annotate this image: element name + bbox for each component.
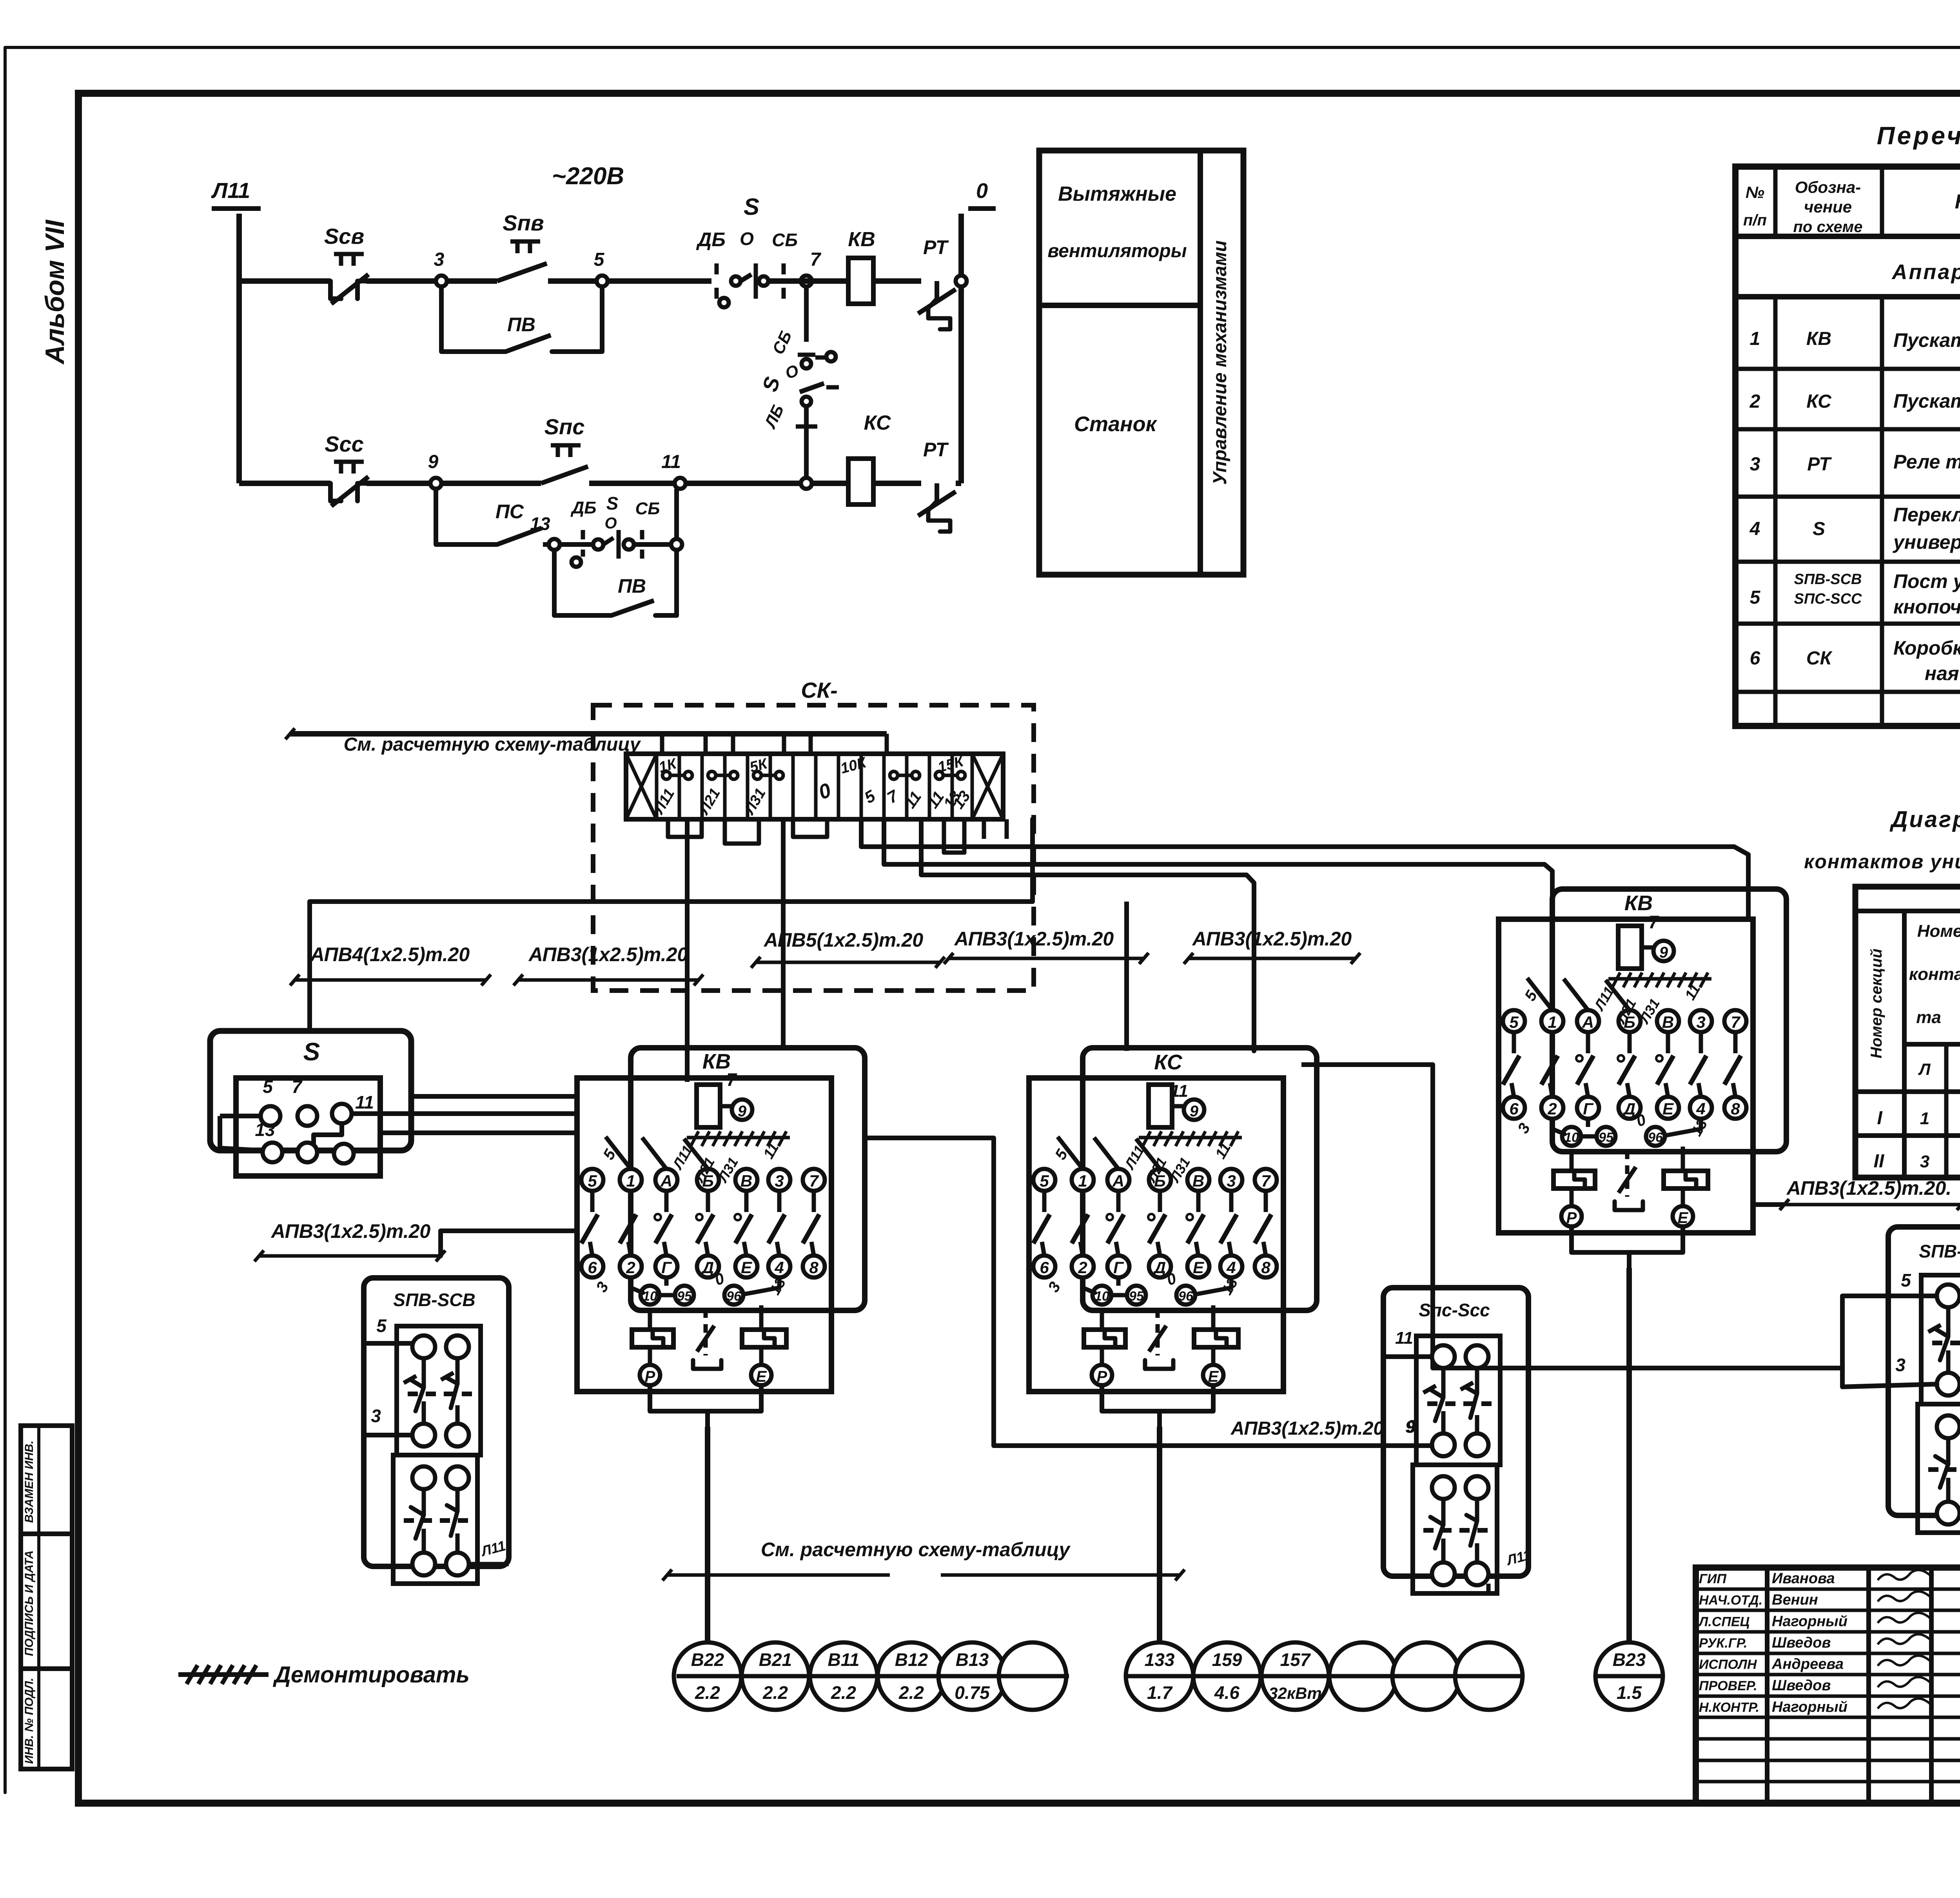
machines control box	[1039, 151, 1243, 575]
svg-text:Нагорный: Нагорный	[1772, 1613, 1847, 1629]
svg-text:РТ: РТ	[1807, 454, 1832, 475]
svg-text:АПВ4(1х2.5)т.20: АПВ4(1х2.5)т.20	[310, 944, 470, 965]
switch S terminal block	[210, 1031, 411, 1150]
svg-text:О: О	[740, 229, 754, 249]
svg-text:В22: В22	[691, 1649, 724, 1670]
svg-text:2.2: 2.2	[831, 1682, 856, 1703]
svg-text:О: О	[604, 515, 617, 532]
button station block SPV-SCV (right)	[1888, 1227, 1960, 1533]
svg-text:Sсв: Sсв	[324, 224, 364, 249]
svg-text:ВЗАМЕН ИНВ.: ВЗАМЕН ИНВ.	[23, 1441, 36, 1523]
legend: to be dismantled	[178, 1672, 269, 1677]
SK top jumper loops	[660, 734, 664, 754]
SK terminal strip	[626, 754, 1003, 819]
svg-text:3: 3	[1920, 1152, 1929, 1171]
svg-text:АПВ3(1х2.5)т.20: АПВ3(1х2.5)т.20	[1230, 1418, 1384, 1439]
svg-text:Диаграмма замыканий: Диаграмма замыканий	[1889, 807, 1960, 832]
wire	[447, 278, 497, 284]
svg-text:Sсс: Sсс	[325, 432, 364, 456]
svg-text:~220В: ~220В	[552, 163, 624, 190]
svg-text:ПВ: ПВ	[507, 314, 535, 336]
wire 0 vertical	[958, 214, 964, 483]
svg-text:0.75: 0.75	[955, 1682, 990, 1703]
svg-text:Л: Л	[1918, 1060, 1931, 1078]
svg-text:Андреева: Андреева	[1771, 1656, 1844, 1673]
svg-text:В13: В13	[956, 1649, 989, 1670]
svg-text:1: 1	[1920, 1109, 1929, 1128]
svg-text:КВ: КВ	[848, 228, 875, 251]
svg-text:6: 6	[1750, 648, 1760, 669]
svg-text:В11: В11	[828, 1649, 860, 1670]
svg-text:Альбом VII: Альбом VII	[40, 219, 70, 365]
svg-text:КС: КС	[1806, 391, 1832, 412]
svg-text:Управление механизмами: Управление механизмами	[1210, 240, 1230, 484]
svg-text:S: S	[744, 194, 759, 220]
svg-text:I: I	[1877, 1108, 1883, 1129]
svg-text:Иванова: Иванова	[1772, 1570, 1835, 1587]
svg-text:SПВ-SСВ: SПВ-SСВ	[1794, 571, 1862, 588]
svg-text:ДБ: ДБ	[570, 498, 597, 517]
junction box SK dashed outline	[593, 705, 1034, 991]
button station block SPV-SCV (left)	[364, 1278, 509, 1584]
svg-text:4.6: 4.6	[1214, 1682, 1240, 1703]
wire	[608, 278, 711, 284]
svg-text:Номер: Номер	[1917, 922, 1960, 941]
svg-text:1: 1	[1750, 328, 1760, 349]
svg-text:СК-: СК-	[801, 678, 838, 702]
svg-text:11: 11	[661, 452, 681, 472]
svg-text:5: 5	[376, 1316, 387, 1336]
svg-text:Реле тепловое: Реле тепловое	[1893, 451, 1960, 473]
svg-text:контактов универсального пер: контактов универсального переключателя	[1804, 851, 1960, 873]
wire SK to KS block left feed	[1124, 902, 1129, 1051]
svg-text:157: 157	[1280, 1649, 1311, 1670]
wire L11 vertical	[236, 214, 242, 483]
svg-text:0: 0	[976, 179, 988, 203]
wire SK down to left KV block B	[781, 819, 786, 1051]
svg-text:Шведов: Шведов	[1772, 1635, 1831, 1651]
svg-text:АПВ3(1х2.5)т.20: АПВ3(1х2.5)т.20	[954, 928, 1114, 950]
svg-text:7: 7	[1648, 912, 1659, 932]
svg-text:См. расчетную схему-таблицу: См. расчетную схему-таблицу	[344, 734, 641, 755]
wire	[956, 278, 961, 284]
svg-text:1.7: 1.7	[1147, 1682, 1173, 1703]
svg-text:S: S	[606, 493, 619, 514]
svg-text:3: 3	[1750, 454, 1760, 475]
svg-text:Пускатель магнитный: Пускатель магнитный	[1893, 390, 1960, 412]
left margin strip table	[21, 1426, 72, 1769]
wire	[548, 278, 597, 284]
svg-text:ПС: ПС	[495, 501, 524, 523]
svg-text:11: 11	[1170, 1081, 1188, 1101]
svg-text:S: S	[1813, 519, 1825, 539]
wire	[956, 481, 961, 486]
svg-text:ПРОВЕР.: ПРОВЕР.	[1699, 1678, 1757, 1693]
svg-text:См. расчетную схему-таблицу: См. расчетную схему-таблицу	[761, 1539, 1071, 1560]
svg-text:9: 9	[428, 452, 439, 472]
wires into SPS-SCC	[1383, 1354, 1432, 1359]
svg-text:Переключатель,: Переключатель,	[1893, 504, 1960, 526]
svg-text:чение: чение	[1804, 198, 1852, 216]
PV second seal-in branch	[554, 550, 612, 615]
wires S block to left KV block	[411, 1094, 577, 1099]
wire into right KV block	[1301, 1062, 1433, 1067]
svg-text:Вытяжные: Вытяжные	[1058, 183, 1176, 205]
wire bundle SK to right KV block (upper)	[861, 819, 1748, 916]
svg-text:Sпс: Sпс	[544, 414, 585, 439]
svg-text:9: 9	[1406, 1416, 1416, 1437]
svg-text:S: S	[303, 1038, 320, 1066]
svg-text:II: II	[1874, 1151, 1885, 1172]
wire	[367, 481, 430, 486]
svg-text:3: 3	[1895, 1355, 1906, 1375]
wire SK to KS block right feed	[921, 819, 1254, 1051]
svg-text:АПВ5(1х2.5)т.20: АПВ5(1х2.5)т.20	[763, 929, 924, 951]
svg-text:SПВ-SСВ: SПВ-SСВ	[393, 1290, 475, 1310]
svg-text:универсальный: универсальный	[1892, 531, 1960, 553]
svg-text:11: 11	[355, 1092, 374, 1112]
cable circles group 2	[1126, 1642, 1193, 1710]
wire	[873, 481, 921, 486]
svg-text:SПС-SСС: SПС-SСС	[1794, 591, 1862, 607]
svg-text:159: 159	[1212, 1649, 1242, 1670]
rung 2 wire	[239, 481, 330, 486]
wire bundle SK to right KV block (lower)	[884, 819, 1552, 898]
svg-text:РТ: РТ	[923, 236, 949, 258]
title block	[1696, 1568, 1960, 1803]
terminal contact pairs	[662, 771, 670, 779]
svg-text:ДБ: ДБ	[696, 229, 726, 250]
svg-text:Пост управления: Пост управления	[1893, 570, 1960, 592]
button station block SPS-SCC	[1383, 1288, 1528, 1593]
svg-text:АПВ3(1х2.5)т.20: АПВ3(1х2.5)т.20	[1192, 928, 1352, 950]
strip end cross right	[972, 754, 1003, 819]
svg-text:3: 3	[434, 249, 445, 270]
cable circle V23	[1595, 1642, 1663, 1710]
contactor terminal block KV (right)	[1499, 889, 1786, 1270]
wire	[686, 481, 801, 486]
strip end cross left	[626, 754, 657, 819]
svg-text:7: 7	[726, 1069, 737, 1090]
wire to SK	[290, 731, 887, 737]
svg-text:СБ: СБ	[635, 499, 660, 518]
contactor terminal block KV (left)	[577, 1048, 865, 1429]
svg-text:РУК.ГР.: РУК.ГР.	[1699, 1636, 1748, 1651]
svg-text:4: 4	[1749, 519, 1760, 539]
svg-text:Пускатель магнитный: Пускатель магнитный	[1893, 329, 1960, 351]
wire KV right block down to cable circle V23	[1626, 1268, 1632, 1642]
svg-text:5: 5	[263, 1076, 273, 1097]
svg-text:7: 7	[810, 249, 822, 270]
svg-text:по схеме: по схеме	[1793, 218, 1862, 236]
svg-text:ная: ная	[1925, 662, 1959, 684]
wire	[589, 481, 675, 486]
wire	[873, 278, 921, 284]
wire	[367, 278, 436, 284]
svg-text:АПВ3(1х2.5)т.20: АПВ3(1х2.5)т.20	[528, 944, 688, 965]
svg-text:кнопочный: кнопочный	[1893, 596, 1960, 618]
svg-text:1.5: 1.5	[1617, 1682, 1642, 1703]
svg-text:В23: В23	[1613, 1649, 1646, 1670]
wire KV left block down to cable circle V22	[705, 1427, 710, 1642]
svg-text:ИСПОЛН: ИСПОЛН	[1699, 1657, 1757, 1672]
svg-text:СК: СК	[1806, 648, 1833, 669]
svg-text:КС: КС	[1154, 1051, 1182, 1074]
svg-text:вентиляторы: вентиляторы	[1047, 241, 1187, 261]
svg-text:РТ: РТ	[923, 439, 949, 461]
svg-text:ПОДПИСЬ И ДАТА: ПОДПИСЬ И ДАТА	[23, 1550, 36, 1656]
SK lower jumper loops	[668, 819, 702, 837]
wires into right button block	[1842, 1294, 1937, 1298]
svg-text:32кВт: 32кВт	[1269, 1684, 1322, 1702]
svg-text:Л11: Л11	[211, 178, 250, 203]
svg-text:Демонтировать: Демонтировать	[272, 1662, 470, 1688]
svg-text:13: 13	[530, 514, 550, 534]
svg-text:3: 3	[371, 1406, 381, 1426]
svg-text:Номер секций: Номер секций	[1868, 949, 1885, 1058]
svg-text:Sпс-Sсс: Sпс-Sсс	[1419, 1300, 1490, 1320]
wire right tall riser	[1433, 1065, 1842, 1368]
svg-text:Наименование: Наименование	[1955, 191, 1960, 213]
svg-text:2.2: 2.2	[762, 1682, 788, 1703]
svg-text:НАЧ.ОТД.: НАЧ.ОТД.	[1699, 1593, 1762, 1608]
svg-text:та: та	[1916, 1008, 1941, 1027]
svg-text:В12: В12	[895, 1649, 928, 1670]
svg-text:5: 5	[1901, 1270, 1911, 1290]
svg-text:Обозна-: Обозна-	[1795, 178, 1861, 196]
short terminal stubs	[982, 819, 986, 839]
svg-text:11: 11	[1395, 1328, 1413, 1348]
svg-text:2.2: 2.2	[898, 1682, 924, 1703]
S switch interlock chain	[804, 287, 809, 342]
svg-text:КС: КС	[864, 412, 891, 434]
S block wires	[220, 1114, 261, 1118]
svg-text:Н.КОНТР.: Н.КОНТР.	[1699, 1700, 1759, 1715]
S block jumper	[314, 1123, 342, 1144]
svg-text:Sпв: Sпв	[503, 210, 544, 235]
svg-text:Станок: Станок	[1074, 412, 1158, 436]
svg-text:Перечень аппаратуры: Перечень аппаратуры	[1877, 122, 1960, 150]
svg-text:Шведов: Шведов	[1772, 1677, 1831, 1694]
svg-text:Коробка соединитель-: Коробка соединитель-	[1893, 637, 1960, 659]
svg-text:АПВ3(1х2.5)т.20: АПВ3(1х2.5)т.20	[270, 1220, 431, 1242]
svg-text:5: 5	[594, 249, 605, 270]
wire SK down to left KV block A	[685, 819, 690, 1082]
cable circles group 1	[674, 1642, 741, 1710]
wires into left button block	[365, 1341, 412, 1346]
svg-text:Венин: Венин	[1772, 1592, 1818, 1608]
svg-text:2: 2	[1749, 391, 1760, 412]
svg-text:СБ: СБ	[772, 230, 798, 250]
switch position table	[1855, 887, 1960, 1178]
wire KV left block to SPS-SCC station	[865, 1138, 1432, 1446]
svg-text:В21: В21	[759, 1649, 792, 1670]
svg-text:КВ: КВ	[1624, 891, 1653, 915]
svg-text:контак-: контак-	[1909, 965, 1960, 984]
svg-text:Аппаратура по месту: Аппаратура по месту	[1891, 260, 1960, 284]
svg-text:5: 5	[1750, 587, 1761, 608]
main left riser wire W2	[310, 819, 1033, 1031]
svg-text:ПВ: ПВ	[618, 575, 646, 597]
svg-text:7: 7	[292, 1076, 303, 1097]
PS seal-in branch with S contacts	[436, 489, 497, 544]
svg-text:№: №	[1746, 183, 1764, 201]
wire KS block down to cable circle 133	[1157, 1427, 1162, 1642]
svg-text:Нагорный: Нагорный	[1772, 1699, 1847, 1715]
svg-text:ИНВ. № ПОДЛ.: ИНВ. № ПОДЛ.	[23, 1678, 36, 1764]
svg-text:п/п: п/п	[1743, 212, 1767, 229]
svg-text:ГИП: ГИП	[1699, 1571, 1727, 1586]
rung 1 wire	[239, 278, 330, 284]
contactor terminal block KS	[1029, 1048, 1317, 1429]
PV seal-in contact branch	[441, 287, 506, 352]
svg-text:КВ: КВ	[1806, 328, 1831, 349]
svg-text:133: 133	[1145, 1649, 1175, 1670]
svg-text:Л.СПЕЦ: Л.СПЕЦ	[1698, 1614, 1749, 1629]
wire	[441, 481, 541, 486]
svg-text:2.2: 2.2	[695, 1682, 720, 1703]
svg-text:SПВ-SСВ: SПВ-SСВ	[1919, 1241, 1960, 1261]
